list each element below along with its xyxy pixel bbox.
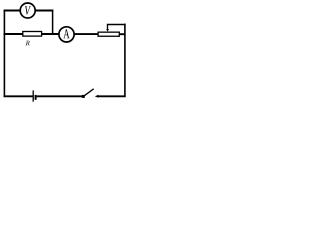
wire: voltmeter branch top left bbox=[4, 10, 21, 12]
wire: ammeter to rheostat bbox=[74, 33, 99, 35]
wire: rheostat right terminal stub bbox=[119, 33, 125, 35]
wire: switch to right rail bbox=[98, 95, 126, 97]
rheostat slider arrowhead bbox=[106, 29, 109, 32]
switch right contact bbox=[95, 95, 99, 98]
switch left post bbox=[82, 95, 85, 98]
wire: bottom left, rail to battery bbox=[4, 95, 33, 97]
voltmeter V bbox=[20, 3, 35, 18]
battery positive plate (long) bbox=[32, 90, 34, 101]
wire: main row, rail to resistor bbox=[4, 33, 24, 35]
rheostat body bbox=[98, 32, 119, 36]
wire: resistor to ammeter bbox=[42, 33, 60, 35]
wire: left rail bbox=[3, 10, 5, 97]
wire: battery to switch bbox=[37, 95, 83, 97]
wire: slider top horizontal bbox=[107, 24, 126, 26]
rheostat slider stem bbox=[107, 24, 109, 29]
ammeter A bbox=[59, 27, 74, 42]
wire: voltmeter branch top right bbox=[35, 10, 53, 12]
resistor R bbox=[23, 32, 42, 37]
switch lever bbox=[84, 89, 93, 96]
wire: voltmeter branch vertical drop bbox=[52, 10, 54, 35]
wire: right rail bbox=[124, 24, 126, 97]
label R bbox=[26, 41, 30, 46]
battery negative plate (short thick) bbox=[35, 95, 37, 100]
